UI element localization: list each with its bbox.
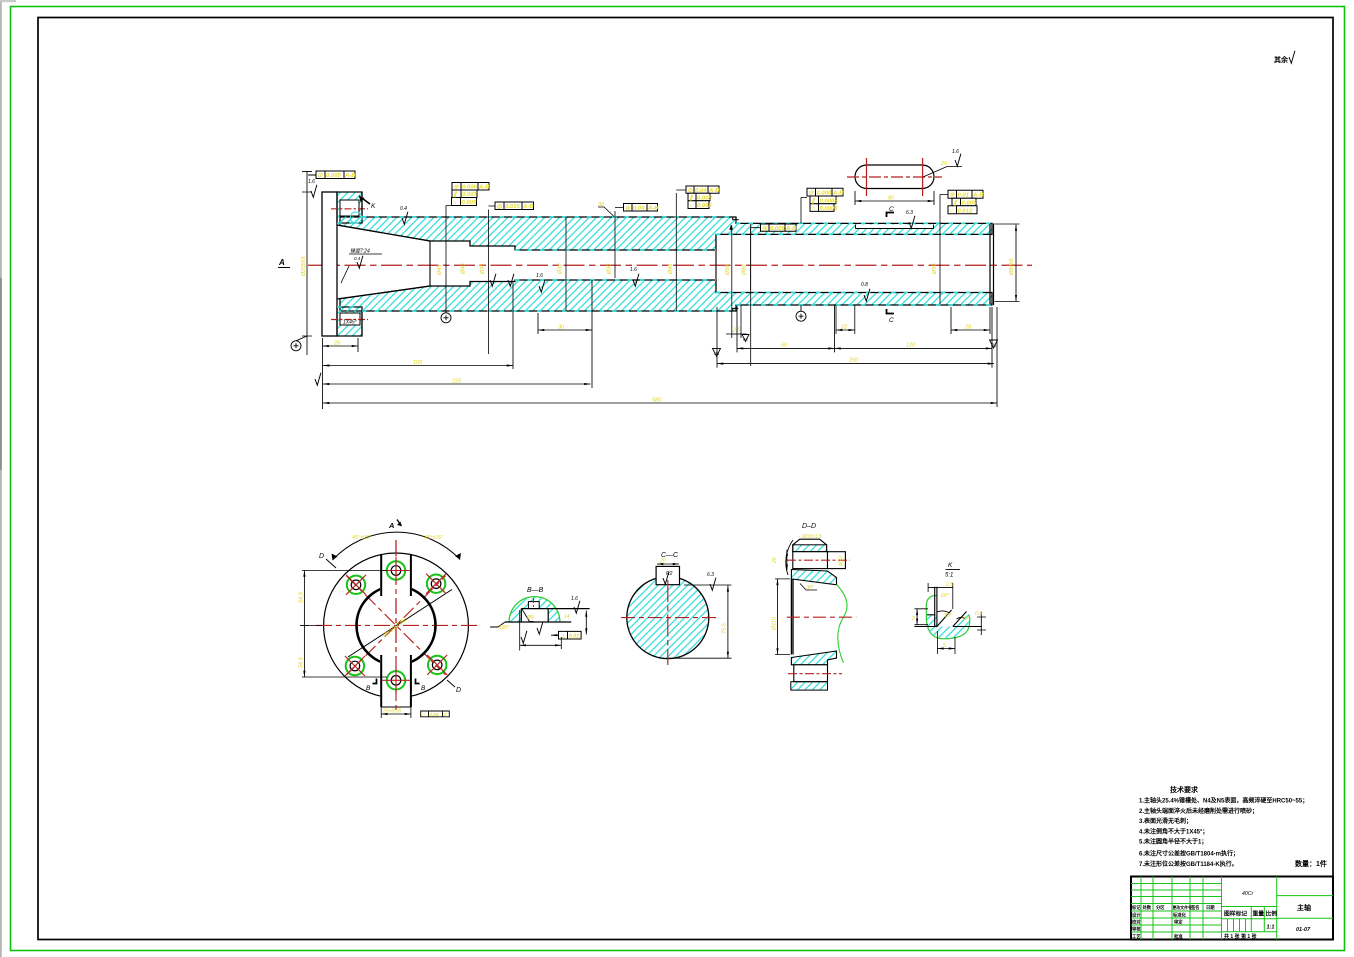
svg-text:Ø110: Ø110: [772, 616, 778, 631]
C-C section circle: [627, 577, 709, 659]
svg-text:1.6: 1.6: [630, 267, 637, 273]
svg-text:0.004: 0.004: [817, 191, 832, 197]
svg-text:0.007: 0.007: [462, 192, 477, 198]
bottom dim: [937, 631, 955, 654]
datum circles: [291, 305, 806, 351]
keyway width dim: [657, 563, 679, 565]
svg-text:580: 580: [652, 398, 662, 404]
svg-text:图样标记: 图样标记: [1224, 910, 1247, 918]
left height dim: [777, 579, 779, 655]
black lines: [914, 587, 982, 627]
title block outer frame: [1131, 877, 1333, 940]
chamfer note: [800, 584, 817, 591]
svg-text:0.04: 0.04: [695, 188, 707, 194]
svg-text:40Cr: 40Cr: [1242, 891, 1254, 897]
svg-text:1.6: 1.6: [952, 149, 959, 155]
svg-text:Ø48: Ø48: [668, 263, 674, 275]
svg-text:14: 14: [564, 614, 570, 620]
svg-text:Ø80h6: Ø80h6: [1009, 258, 1015, 276]
svg-text:标记: 标记: [1131, 904, 1141, 911]
red centerlines: [316, 540, 478, 713]
svg-text:A2: A2: [743, 337, 749, 342]
shaft lower hatched wall: [340, 280, 992, 311]
svg-text:0.005: 0.005: [462, 200, 477, 206]
flange top bolt boss (section): [337, 192, 362, 223]
svg-text:Ø58: Ø58: [725, 264, 731, 276]
svg-text:C: C: [889, 317, 894, 324]
svg-text:C: C: [889, 206, 894, 213]
svg-text:A-B: A-B: [344, 173, 356, 179]
svg-text:225: 225: [451, 379, 462, 385]
svg-text:Ø45: Ø45: [437, 264, 443, 276]
keyway slot top view (stadium): [855, 165, 934, 189]
svg-text:0.012: 0.012: [958, 208, 973, 214]
svg-text:M20: M20: [839, 556, 845, 566]
FCF yellow texts: [318, 173, 985, 232]
svg-text:0.005: 0.005: [962, 200, 977, 206]
section mark C top: [887, 213, 895, 218]
svg-text:60: 60: [781, 343, 788, 349]
keyway channel top: [380, 557, 412, 594]
dimensions below shaft: [323, 224, 1020, 409]
svg-text:20: 20: [659, 559, 666, 565]
svg-text:◎: ◎: [625, 206, 631, 212]
K view arrow near flange: [359, 196, 370, 204]
left bolt circle dims: [303, 571, 305, 678]
svg-text:4.未注倒角不大于1X45°；: 4.未注倒角不大于1X45°；: [1139, 827, 1208, 835]
keyway slot at top: [656, 566, 679, 584]
svg-text:审定: 审定: [1174, 919, 1183, 926]
svg-text:数量：1件: 数量：1件: [1295, 859, 1327, 868]
svg-text:0.006: 0.006: [462, 185, 477, 191]
bolt hole cavity: [521, 609, 548, 622]
svg-text:28: 28: [333, 341, 341, 347]
D-D section diagonal line: [348, 590, 452, 658]
svg-text:1X45°: 1X45°: [343, 320, 357, 326]
svg-text:◎: ◎: [762, 226, 768, 232]
B-B dome section: [509, 597, 560, 622]
hub left wall: [791, 579, 793, 655]
svg-text:A: A: [278, 258, 285, 267]
right vertical dim: [585, 611, 587, 635]
internal leader lines right section: [731, 226, 733, 304]
svg-text:A1: A1: [713, 351, 720, 356]
svg-text:30: 30: [558, 325, 565, 331]
svg-text:D: D: [456, 687, 461, 694]
svg-text:0.4: 0.4: [400, 206, 407, 212]
svg-text:2: 2: [911, 616, 915, 622]
svg-text:主轴: 主轴: [1297, 903, 1311, 912]
green break line: [837, 584, 848, 662]
svg-text:重量: 重量: [1253, 910, 1265, 918]
svg-text:A-B: A-B: [708, 188, 720, 194]
flange bottom bolt boss (section): [337, 307, 362, 336]
svg-text:0.01: 0.01: [958, 193, 969, 199]
svg-text:2.5: 2.5: [945, 582, 953, 588]
lower flange wall hatched (slanted): [791, 651, 836, 665]
svg-text:A-B: A-B: [522, 204, 534, 210]
green groove outline: [926, 595, 970, 638]
window edge artifact left: [0, 0, 2, 957]
svg-text:签名: 签名: [1190, 904, 1200, 911]
svg-text:Ø30: Ø30: [607, 263, 613, 275]
svg-text:A-B: A-B: [832, 191, 844, 197]
svg-text:更改文件号: 更改文件号: [1173, 905, 1193, 910]
svg-text:处数: 处数: [1142, 904, 1152, 911]
svg-text:120: 120: [906, 343, 916, 349]
svg-text:Ø59: Ø59: [932, 264, 938, 275]
svg-text:0.04: 0.04: [430, 712, 439, 717]
centerline main axis: [308, 264, 1032, 266]
requirement lines: [1139, 797, 1308, 868]
svg-text:0.0005: 0.0005: [820, 206, 839, 212]
flange shoulder verticals: [361, 192, 363, 336]
svg-text:45°±10': 45°±10': [352, 535, 371, 541]
svg-text:1.主轴头25.4%锤槽处、N4及N5表面，高频淬硬至HRC: 1.主轴头25.4%锤槽处、N4及N5表面，高频淬硬至HRC50~55；: [1139, 797, 1308, 805]
svg-text:75.5: 75.5: [722, 622, 728, 634]
top dim: [928, 586, 953, 588]
FCF frames (geometric tolerance boxes): [308, 171, 983, 231]
svg-text:Ø90: Ø90: [742, 264, 748, 276]
svg-text:1.6: 1.6: [571, 596, 578, 602]
svg-text:K: K: [371, 203, 376, 210]
top hatch strip: [793, 545, 827, 552]
svg-text:30: 30: [598, 202, 605, 208]
section mark C bottom: [887, 309, 895, 314]
svg-text:Ø36: Ø36: [480, 263, 486, 275]
svg-text:○: ○: [812, 206, 816, 212]
svg-text:A-B: A-B: [647, 206, 659, 212]
datum flags: [713, 348, 721, 356]
svg-text:Ø30: Ø30: [558, 263, 564, 275]
bolt hole centerline bottom: [331, 319, 368, 321]
svg-text:技术要求: 技术要求: [1170, 785, 1199, 794]
svg-text:0.005: 0.005: [326, 173, 341, 179]
svg-text:0.005: 0.005: [770, 226, 785, 232]
keyway notch at top: [528, 602, 539, 609]
leaders / section lines vertical: [446, 190, 948, 354]
upper flange wall hatched (slanted): [791, 570, 836, 585]
bottom hatch strip: [791, 682, 828, 690]
svg-text:B: B: [366, 685, 371, 692]
keyway extent ext lines + dim: [751, 224, 855, 366]
top nut hex cap: [793, 539, 827, 552]
svg-text:○: ○: [690, 203, 694, 209]
svg-text:0.015: 0.015: [505, 204, 520, 210]
svg-text:Ø40: Ø40: [461, 263, 467, 275]
svg-text:共 1 张 第 1 张: 共 1 张 第 1 张: [1224, 933, 1258, 940]
svg-text:A-B: A-B: [785, 226, 797, 232]
svg-text:B1: B1: [991, 343, 997, 348]
chamfer angle arcs: [937, 611, 949, 613]
svg-text:260: 260: [848, 358, 859, 364]
stadium leader: [923, 167, 962, 178]
svg-text:批准: 批准: [1174, 933, 1183, 940]
stadium centerlines: [847, 176, 942, 178]
svg-text:○: ○: [950, 208, 954, 214]
svg-text:日期: 日期: [1206, 904, 1215, 911]
svg-text:M33×1.5: M33×1.5: [802, 534, 822, 540]
left dim: [916, 609, 918, 625]
surface note 其余 top right: [1274, 51, 1295, 64]
svg-text:5.未注圆角半径不大于1；: 5.未注圆角半径不大于1；: [1139, 838, 1207, 846]
bottom stud white block: [794, 665, 828, 682]
svg-text:45°±10': 45°±10': [424, 535, 443, 541]
svg-text:0.005: 0.005: [697, 203, 712, 209]
lower dims: [520, 610, 562, 651]
svg-text:80: 80: [888, 196, 895, 202]
svg-text:6.3: 6.3: [906, 210, 913, 216]
surface finish marks: [311, 185, 317, 197]
svg-text:校对: 校对: [1132, 919, 1141, 926]
svg-text:D: D: [319, 553, 324, 560]
svg-text:其余: 其余: [1274, 55, 1289, 64]
svg-text:锤度7:24: 锤度7:24: [350, 248, 370, 255]
svg-text:0.008: 0.008: [697, 196, 712, 202]
svg-text:7.未注形位公差按GB/T1184-K执行。: 7.未注形位公差按GB/T1184-K执行。: [1139, 860, 1238, 868]
cyan dashed edge overlays: [337, 217, 992, 311]
svg-text:2.主轴头端面淬火后未经磨削处需进行喷砂；: 2.主轴头端面淬火后未经磨削处需进行喷砂；: [1139, 807, 1258, 815]
svg-text:0.8: 0.8: [861, 282, 868, 288]
svg-text:3.表面光滑无毛刺；: 3.表面光滑无毛刺；: [1139, 817, 1192, 825]
svg-text:20: 20: [940, 161, 948, 167]
svg-text:0.4: 0.4: [354, 256, 361, 261]
svg-text:0.5: 0.5: [975, 611, 982, 617]
svg-text:1:1: 1:1: [1267, 925, 1275, 931]
svg-text:审核: 审核: [1132, 926, 1141, 933]
svg-text:R2: R2: [666, 571, 673, 577]
svg-text:○: ○: [453, 200, 457, 206]
svg-text:A-B: A-B: [478, 185, 490, 191]
svg-text:◎: ◎: [497, 204, 503, 210]
red centerline: [787, 616, 856, 618]
stadium length dim: [855, 200, 934, 202]
svg-text:标准化: 标准化: [1172, 912, 1187, 919]
red centerlines: [621, 617, 716, 619]
left diameter dimension: [306, 172, 308, 356]
svg-text:60°: 60°: [962, 616, 970, 622]
svg-text:B—B: B—B: [527, 587, 544, 594]
left swing arc: [786, 540, 793, 575]
svg-text:22: 22: [840, 325, 847, 331]
svg-text:1.6: 1.6: [536, 273, 543, 279]
svg-text:分区: 分区: [1156, 904, 1165, 911]
6 bolt holes: [387, 561, 405, 579]
svg-text:0.0008: 0.0008: [820, 198, 839, 204]
middle header cells: [1224, 910, 1277, 918]
svg-text:6.未注尺寸公差按GB/T1804-m执行；: 6.未注尺寸公差按GB/T1804-m执行；: [1139, 850, 1239, 858]
svg-text:Ø9: Ø9: [526, 615, 534, 621]
svg-text:比例: 比例: [1266, 910, 1278, 918]
svg-text:A: A: [388, 521, 394, 530]
svg-text:D–D: D–D: [802, 523, 816, 530]
svg-text:54.9: 54.9: [299, 657, 305, 668]
flange end view outer circle: [324, 553, 469, 698]
svg-text:54.9: 54.9: [299, 592, 305, 603]
svg-text:01-07: 01-07: [1296, 927, 1311, 933]
keyway width dim bottom: [381, 696, 411, 718]
B section marks: [373, 679, 377, 684]
svg-text:B: B: [421, 685, 426, 692]
svg-text:25+0.05: 25+0.05: [382, 709, 401, 715]
groove hatch: [927, 612, 970, 639]
svg-text:设计: 设计: [1132, 912, 1141, 919]
leader tick mid: [598, 207, 614, 217]
keyway cut in front view: [856, 225, 934, 229]
svg-text:1.6: 1.6: [308, 179, 315, 185]
svg-text:30°: 30°: [944, 613, 952, 619]
right depth dim: [669, 585, 732, 658]
surface marks: [521, 631, 527, 643]
bolt hole centerline top: [331, 208, 368, 210]
svg-text:K: K: [948, 562, 953, 569]
cyan detail circle on flange corner: [350, 212, 361, 223]
svg-text:A-B: A-B: [972, 193, 984, 199]
shaft upper hatched wall: [340, 217, 992, 250]
shoulder relief notches: [732, 217, 738, 311]
bore step lines: [430, 234, 716, 292]
red crosshairs on holes: [345, 557, 447, 695]
svg-text:6.3: 6.3: [707, 572, 714, 578]
svg-text:28: 28: [964, 325, 972, 331]
keyway channel bottom: [380, 658, 412, 707]
green grid: [1131, 877, 1333, 940]
red vertical centerline re-draw over keyways: [395, 540, 397, 713]
svg-text:60°: 60°: [941, 593, 949, 599]
right vertical dim: [980, 612, 982, 635]
bottom step notch lines + tiny dim: [732, 303, 741, 338]
svg-text:5:1: 5:1: [945, 573, 953, 579]
svg-text:0.01: 0.01: [569, 634, 580, 640]
svg-text:120°: 120°: [499, 625, 509, 631]
svg-text:2.5: 2.5: [732, 328, 740, 334]
svg-text:30°: 30°: [807, 585, 815, 591]
stud shank white block: [793, 552, 828, 569]
svg-text:0.03: 0.03: [633, 206, 645, 212]
svg-text:Ø205h5: Ø205h5: [301, 255, 307, 277]
partial arc D-D path: [333, 532, 461, 560]
svg-text:□: □: [422, 712, 425, 717]
FCF perp: [559, 631, 582, 639]
svg-text:25: 25: [772, 557, 778, 564]
left table labels: [1131, 904, 1215, 940]
shaft right end face: [990, 223, 994, 305]
svg-text:5: 5: [943, 643, 946, 649]
taper bore lines 7:24: [337, 225, 430, 299]
svg-text:105: 105: [413, 360, 423, 366]
bore circle: [357, 586, 436, 665]
flange left face plate: [322, 192, 337, 336]
svg-text:工艺: 工艺: [1132, 933, 1141, 940]
